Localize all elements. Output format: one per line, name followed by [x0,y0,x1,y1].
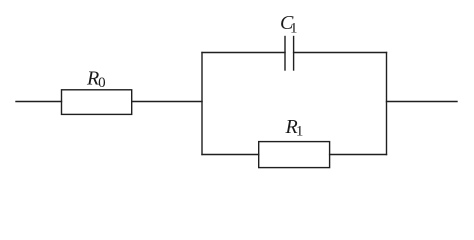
resistor R1 [259,142,330,168]
wire left vertical branch [201,53,203,155]
svg-text:R0: R0 [86,68,106,91]
svg-text:C1: C1 [280,12,298,37]
resistor R0 [62,90,132,115]
capacitor C1 [285,37,294,71]
wire R0 to node A [132,101,202,103]
svg-text:R1: R1 [285,116,304,139]
wire bottom branch to R1 [202,154,259,156]
wire right vertical branch [386,53,388,155]
wire top branch to C1 [202,52,285,54]
wire input left [16,101,62,103]
wire output right [387,101,458,103]
wire C1 to right vertical [294,52,387,54]
wire R1 to right vertical [330,154,387,156]
